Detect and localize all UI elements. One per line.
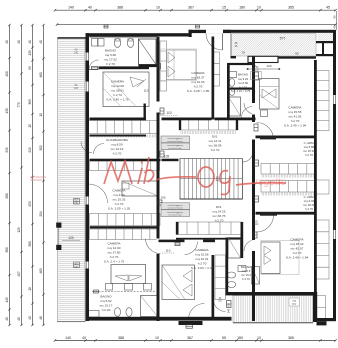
svg-text:mq 5.60: mq 5.60	[105, 53, 116, 57]
svg-text:S.A. 2.40 > 1.94: S.A. 2.40 > 1.94	[286, 256, 309, 260]
svg-text:h 2.70: h 2.70	[291, 119, 300, 123]
svg-text:GUARDAROBA: GUARDAROBA	[106, 138, 129, 142]
svg-text:40: 40	[332, 25, 336, 29]
svg-text:S.A. 3.04 > 1.39: S.A. 3.04 > 1.39	[191, 266, 214, 270]
svg-text:h 2.70: h 2.70	[293, 251, 302, 255]
svg-text:40: 40	[88, 6, 92, 10]
svg-text:120: 120	[68, 236, 74, 240]
svg-text:280: 280	[5, 193, 9, 199]
svg-text:CAMERA: CAMERA	[111, 80, 125, 84]
svg-text:accesso in basso: accesso in basso	[167, 208, 183, 210]
svg-text:h 2.70: h 2.70	[242, 277, 250, 281]
svg-text:110: 110	[144, 89, 149, 93]
svg-text:accesso in alto: accesso in alto	[168, 214, 182, 217]
svg-text:40: 40	[82, 336, 86, 340]
svg-text:S.A. 2.4 > 1.75: S.A. 2.4 > 1.75	[104, 260, 125, 264]
svg-text:140: 140	[74, 51, 79, 54]
svg-text:S.A. 3.28 > 1.95: S.A. 3.28 > 1.95	[187, 89, 210, 93]
svg-text:10: 10	[28, 287, 32, 291]
svg-text:577: 577	[280, 37, 286, 41]
svg-text:h 2.70: h 2.70	[110, 255, 119, 259]
svg-text:380: 380	[28, 241, 32, 247]
svg-text:388: 388	[117, 6, 123, 10]
svg-text:mc 23.19: mc 23.19	[111, 147, 124, 151]
svg-text:180: 180	[237, 336, 243, 340]
svg-text:accesso in alto: accesso in alto	[168, 147, 182, 150]
svg-text:mc 25.35: mc 25.35	[113, 198, 126, 202]
svg-text:CAMERA: CAMERA	[288, 106, 302, 110]
svg-text:40: 40	[28, 40, 32, 44]
svg-text:10: 10	[155, 336, 159, 340]
svg-text:145: 145	[5, 297, 9, 303]
svg-text:S.A. 2.40 > 1.75: S.A. 2.40 > 1.75	[106, 98, 129, 102]
svg-text:CAMERA: CAMERA	[191, 71, 205, 75]
svg-text:h 2.70: h 2.70	[194, 85, 203, 89]
svg-text:CAMERA: CAMERA	[112, 189, 126, 193]
svg-text:110: 110	[166, 111, 171, 115]
svg-text:239: 239	[5, 147, 9, 153]
svg-text:40: 40	[5, 317, 9, 321]
svg-text:253: 253	[28, 201, 32, 207]
svg-text:40: 40	[17, 40, 21, 44]
svg-text:219: 219	[28, 147, 32, 153]
svg-text:10: 10	[39, 113, 43, 117]
svg-text:15: 15	[222, 6, 226, 10]
svg-text:h 2.70: h 2.70	[239, 85, 247, 89]
svg-text:105: 105	[160, 196, 165, 200]
svg-text:204: 204	[39, 211, 43, 217]
svg-text:mq 5.62: mq 5.62	[100, 299, 111, 303]
svg-text:140: 140	[68, 6, 74, 10]
svg-text:h 2.70: h 2.70	[215, 219, 224, 223]
svg-text:40: 40	[5, 40, 9, 44]
svg-text:mc 38.09: mc 38.09	[209, 144, 222, 148]
svg-text:mq 14.00: mq 14.00	[108, 246, 121, 250]
svg-text:CAMERA: CAMERA	[195, 248, 209, 252]
svg-text:55: 55	[222, 336, 226, 340]
svg-text:40: 40	[28, 316, 32, 320]
svg-text:S.A. 2.40 > 1.94: S.A. 2.40 > 1.94	[284, 124, 307, 128]
svg-text:BAGNO: BAGNO	[105, 49, 117, 53]
svg-text:CAMERA: CAMERA	[290, 238, 304, 242]
svg-text:180: 180	[239, 6, 245, 10]
svg-text:40: 40	[39, 40, 43, 44]
svg-text:h 2.70: h 2.70	[113, 152, 122, 156]
svg-text:302: 302	[39, 145, 43, 151]
svg-text:accesso in basso: accesso in basso	[167, 141, 183, 143]
svg-text:400: 400	[5, 71, 9, 77]
svg-text:h 2.70: h 2.70	[211, 148, 220, 152]
svg-text:mc 15.17: mc 15.17	[100, 304, 113, 308]
svg-text:mq 14.06: mq 14.06	[111, 84, 124, 88]
svg-text:DX: DX	[242, 52, 246, 55]
svg-text:cucina/soggiorno: cucina/soggiorno	[167, 205, 183, 207]
svg-text:407: 407	[17, 271, 21, 277]
svg-text:h 2.70: h 2.70	[198, 262, 207, 266]
svg-text:mq 14.25: mq 14.25	[213, 210, 226, 214]
svg-text:DIS.: DIS.	[212, 135, 218, 139]
svg-text:h 2.70: h 2.70	[113, 93, 122, 97]
svg-text:775: 775	[17, 102, 21, 108]
svg-text:380: 380	[5, 247, 9, 253]
svg-text:59: 59	[28, 66, 32, 70]
svg-text:mc 41.05: mc 41.05	[289, 115, 302, 119]
svg-text:cucina/soggiorno: cucina/soggiorno	[167, 138, 183, 140]
svg-text:130: 130	[5, 108, 9, 114]
svg-text:mq 15.42: mq 15.42	[291, 242, 304, 246]
svg-text:15: 15	[28, 124, 32, 128]
svg-text:mq 15.56: mq 15.56	[196, 253, 209, 257]
svg-text:mc 42.07: mc 42.07	[291, 247, 304, 251]
svg-text:129: 129	[17, 227, 21, 233]
svg-text:DIS.: DIS.	[216, 205, 222, 209]
svg-text:h 2.20: h 2.20	[102, 308, 111, 312]
svg-text:camera/soggiorno: camera/soggiorno	[167, 145, 184, 147]
svg-text:h 2.70: h 2.70	[106, 62, 115, 66]
svg-text:367: 367	[187, 336, 193, 340]
svg-text:45: 45	[326, 6, 330, 10]
svg-text:463: 463	[39, 268, 43, 274]
svg-text:mc 38.75: mc 38.75	[213, 214, 226, 218]
svg-text:46: 46	[39, 316, 43, 320]
svg-text:mq 15.55: mq 15.55	[289, 110, 302, 114]
svg-text:365: 365	[288, 336, 294, 340]
svg-text:40: 40	[332, 15, 336, 19]
svg-text:8.9: 8.9	[292, 302, 296, 306]
svg-text:S.A. 3.05 > 1.35: S.A. 3.05 > 1.35	[108, 207, 131, 211]
svg-text:140: 140	[65, 336, 71, 340]
svg-text:10: 10	[156, 6, 160, 10]
svg-text:367: 367	[188, 6, 194, 10]
svg-text:10: 10	[257, 336, 261, 340]
svg-text:105: 105	[164, 155, 170, 159]
svg-text:365: 365	[288, 6, 294, 10]
svg-text:139: 139	[28, 50, 32, 56]
svg-text:388: 388	[118, 336, 124, 340]
svg-text:110: 110	[166, 249, 171, 253]
svg-text:mq 18.37: mq 18.37	[192, 76, 205, 80]
svg-text:65: 65	[295, 52, 299, 56]
svg-text:240: 240	[227, 308, 231, 313]
svg-text:rogetto: rogetto	[255, 177, 287, 188]
svg-text:mq 8.59: mq 8.59	[111, 143, 122, 147]
svg-text:S.A. 2.10 > 0.79: S.A. 2.10 > 0.79	[231, 89, 251, 93]
svg-text:mq 42.04: mq 42.04	[192, 80, 205, 84]
svg-text:BAGNO: BAGNO	[100, 295, 112, 299]
svg-text:10: 10	[257, 6, 261, 10]
svg-text:mq 14.11: mq 14.11	[209, 139, 222, 143]
svg-text:100: 100	[266, 64, 271, 68]
svg-text:h 2.70: h 2.70	[305, 153, 313, 157]
svg-text:140: 140	[74, 266, 79, 269]
svg-text:mq 9.39: mq 9.39	[113, 193, 124, 197]
svg-text:140: 140	[74, 87, 79, 90]
svg-text:CAMERA: CAMERA	[107, 242, 121, 246]
svg-text:h 2.70: h 2.70	[305, 207, 313, 211]
svg-text:460: 460	[39, 72, 43, 78]
svg-text:363: 363	[28, 99, 32, 105]
svg-text:camera/soggiorno: camera/soggiorno	[167, 212, 184, 214]
svg-text:150: 150	[216, 176, 220, 182]
svg-text:mc 17.92: mc 17.92	[104, 58, 117, 62]
svg-text:40: 40	[17, 317, 21, 321]
svg-text:mq 42.01: mq 42.01	[196, 257, 209, 261]
svg-text:mc 38.01: mc 38.01	[111, 89, 124, 93]
svg-text:mc 37.80: mc 37.80	[108, 251, 121, 255]
svg-text:140: 140	[74, 201, 79, 204]
svg-text:h 2.70: h 2.70	[115, 202, 124, 206]
